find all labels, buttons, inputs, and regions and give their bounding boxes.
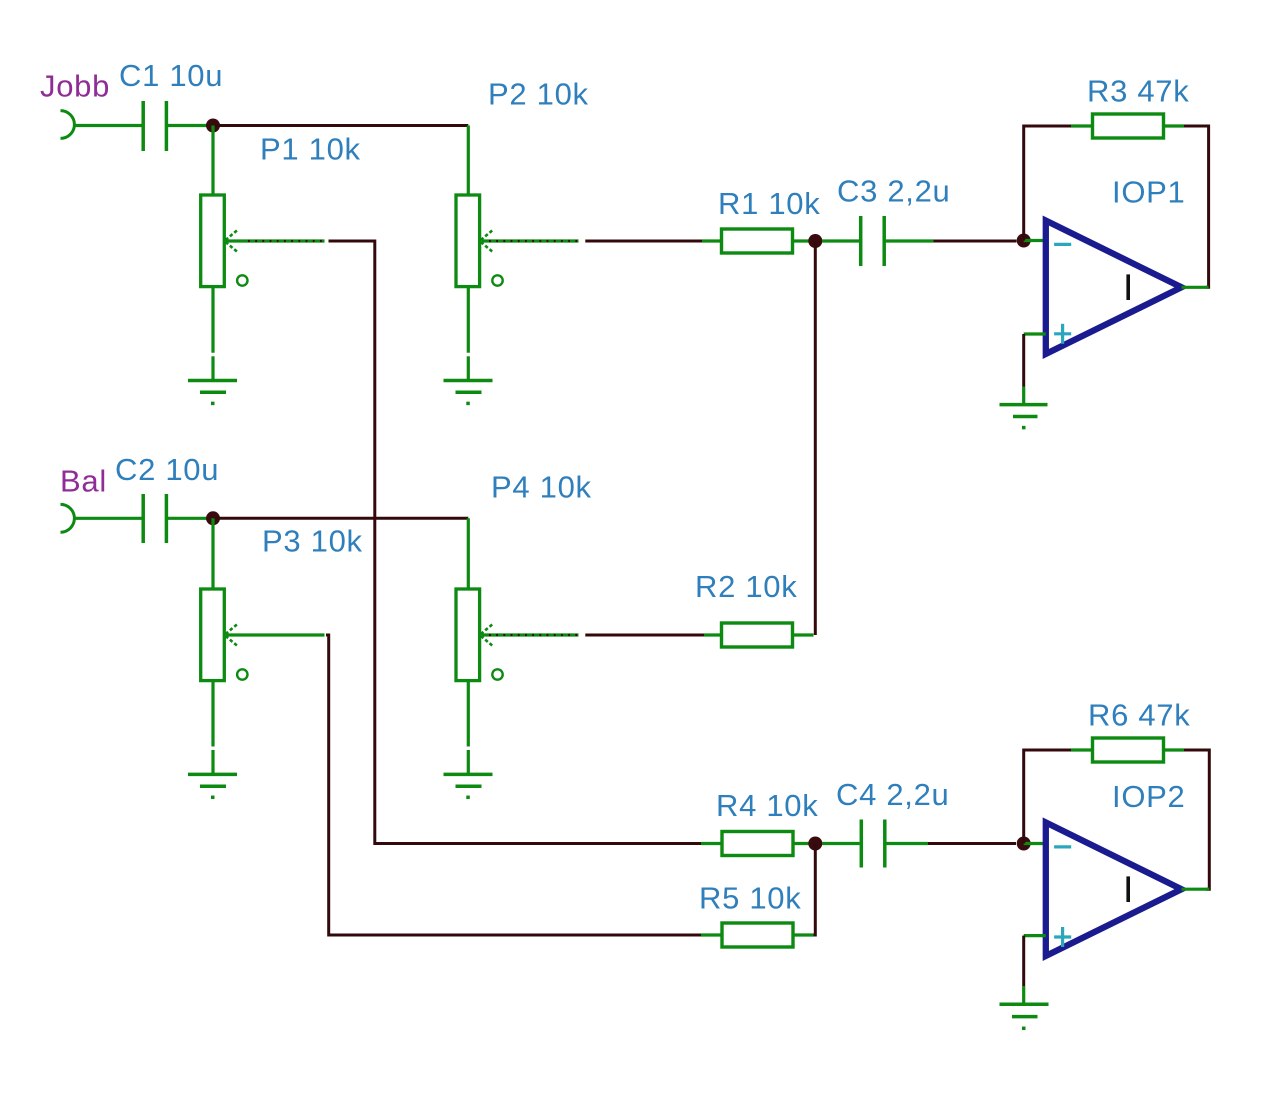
- wire: [1022, 334, 1025, 387]
- svg-text:P3 10k: P3 10k: [262, 524, 363, 559]
- wire IOP2 plus input: [1024, 934, 1046, 937]
- wire feedback left IOP1: [1024, 126, 1071, 241]
- node junction C1/P1: [206, 119, 220, 133]
- svg-text:R2 10k: R2 10k: [695, 569, 797, 604]
- ground IOP1: [1000, 405, 1048, 428]
- wire: [1022, 387, 1025, 404]
- wire: [211, 126, 214, 196]
- capacitor C2: [143, 494, 213, 543]
- svg-text:C1 10u: C1 10u: [119, 58, 223, 93]
- resistor R1: [702, 229, 822, 253]
- node junction IOP1 minus: [1017, 234, 1031, 248]
- potentiometer P3: [201, 589, 325, 775]
- wire C4 to IOP2: [928, 842, 1016, 845]
- wire: [1022, 986, 1025, 1003]
- resistor R2: [704, 623, 814, 647]
- potentiometer P4: [456, 589, 579, 775]
- wire junction down to R5: [812, 844, 815, 936]
- wire C3 to IOP1: [934, 240, 1017, 243]
- svg-text:R6 47k: R6 47k: [1088, 698, 1190, 733]
- resistor R5: [701, 923, 814, 947]
- svg-text:C2 10u: C2 10u: [115, 452, 219, 487]
- ground IOP2: [1000, 1004, 1049, 1028]
- wire: [74, 517, 143, 520]
- wire: [467, 126, 470, 196]
- resistor R3: [1071, 114, 1184, 138]
- input terminal Jobb: [61, 111, 75, 139]
- svg-text:R5 10k: R5 10k: [699, 881, 801, 916]
- capacitor C4: [822, 820, 928, 868]
- wire P1 wiper to R4: [329, 241, 702, 844]
- wire: [1024, 239, 1046, 242]
- wire: [74, 124, 143, 127]
- svg-text:P2 10k: P2 10k: [488, 77, 589, 112]
- capacitor C1: [143, 101, 213, 151]
- svg-text:R3 47k: R3 47k: [1087, 74, 1189, 109]
- wire P4 wiper to R2: [585, 634, 706, 637]
- node junction IOP2 minus: [1017, 837, 1031, 851]
- svg-text:R1 10k: R1 10k: [718, 186, 820, 221]
- wire P2 wiper to R1: [585, 240, 704, 243]
- svg-text:P1 10k: P1 10k: [260, 132, 361, 167]
- svg-text:IOP1: IOP1: [1112, 175, 1185, 210]
- capacitor C3: [822, 216, 934, 266]
- svg-text:C3 2,2u: C3 2,2u: [837, 174, 950, 209]
- svg-text:IOP2: IOP2: [1112, 779, 1185, 814]
- ground P4: [444, 774, 493, 797]
- wire: [211, 518, 214, 589]
- wire mid rail Bal: [213, 517, 468, 520]
- wire feedback right IOP2: [1184, 750, 1209, 889]
- resistor R4: [701, 832, 822, 856]
- op-amp U1 IOP1: [1046, 221, 1182, 355]
- input terminal Bal: [61, 504, 75, 532]
- resistor R6: [1071, 738, 1184, 762]
- wire junction down to R2: [814, 241, 817, 635]
- svg-text:R4 10k: R4 10k: [716, 788, 818, 823]
- node junction R1/R2/C3: [808, 234, 822, 248]
- wire: [467, 518, 470, 589]
- ground P1: [188, 381, 237, 404]
- svg-text:C4 2,2u: C4 2,2u: [836, 777, 949, 812]
- potentiometer P1: [201, 195, 325, 381]
- wire feedback left IOP2: [1024, 750, 1071, 844]
- node junction C2/P3: [206, 511, 220, 525]
- wire feedback right IOP1: [1184, 126, 1209, 287]
- wire IOP1 plus input: [1024, 332, 1046, 335]
- op-amp U2 IOP2: [1046, 822, 1182, 956]
- wire: [1024, 842, 1046, 845]
- wire: [1022, 936, 1025, 986]
- svg-text:Bal: Bal: [60, 464, 107, 499]
- wire output IOP1: [1182, 286, 1209, 289]
- node junction R4/R5/C4: [808, 837, 822, 851]
- wire output IOP2: [1182, 888, 1210, 891]
- svg-text:P4 10k: P4 10k: [491, 470, 592, 505]
- svg-text:Jobb: Jobb: [40, 69, 110, 104]
- wire P3 wiper to R5: [326, 635, 701, 935]
- wire top rail Jobb: [213, 124, 468, 127]
- potentiometer P2: [456, 195, 579, 381]
- ground P2: [444, 381, 493, 404]
- ground P3: [188, 774, 237, 797]
